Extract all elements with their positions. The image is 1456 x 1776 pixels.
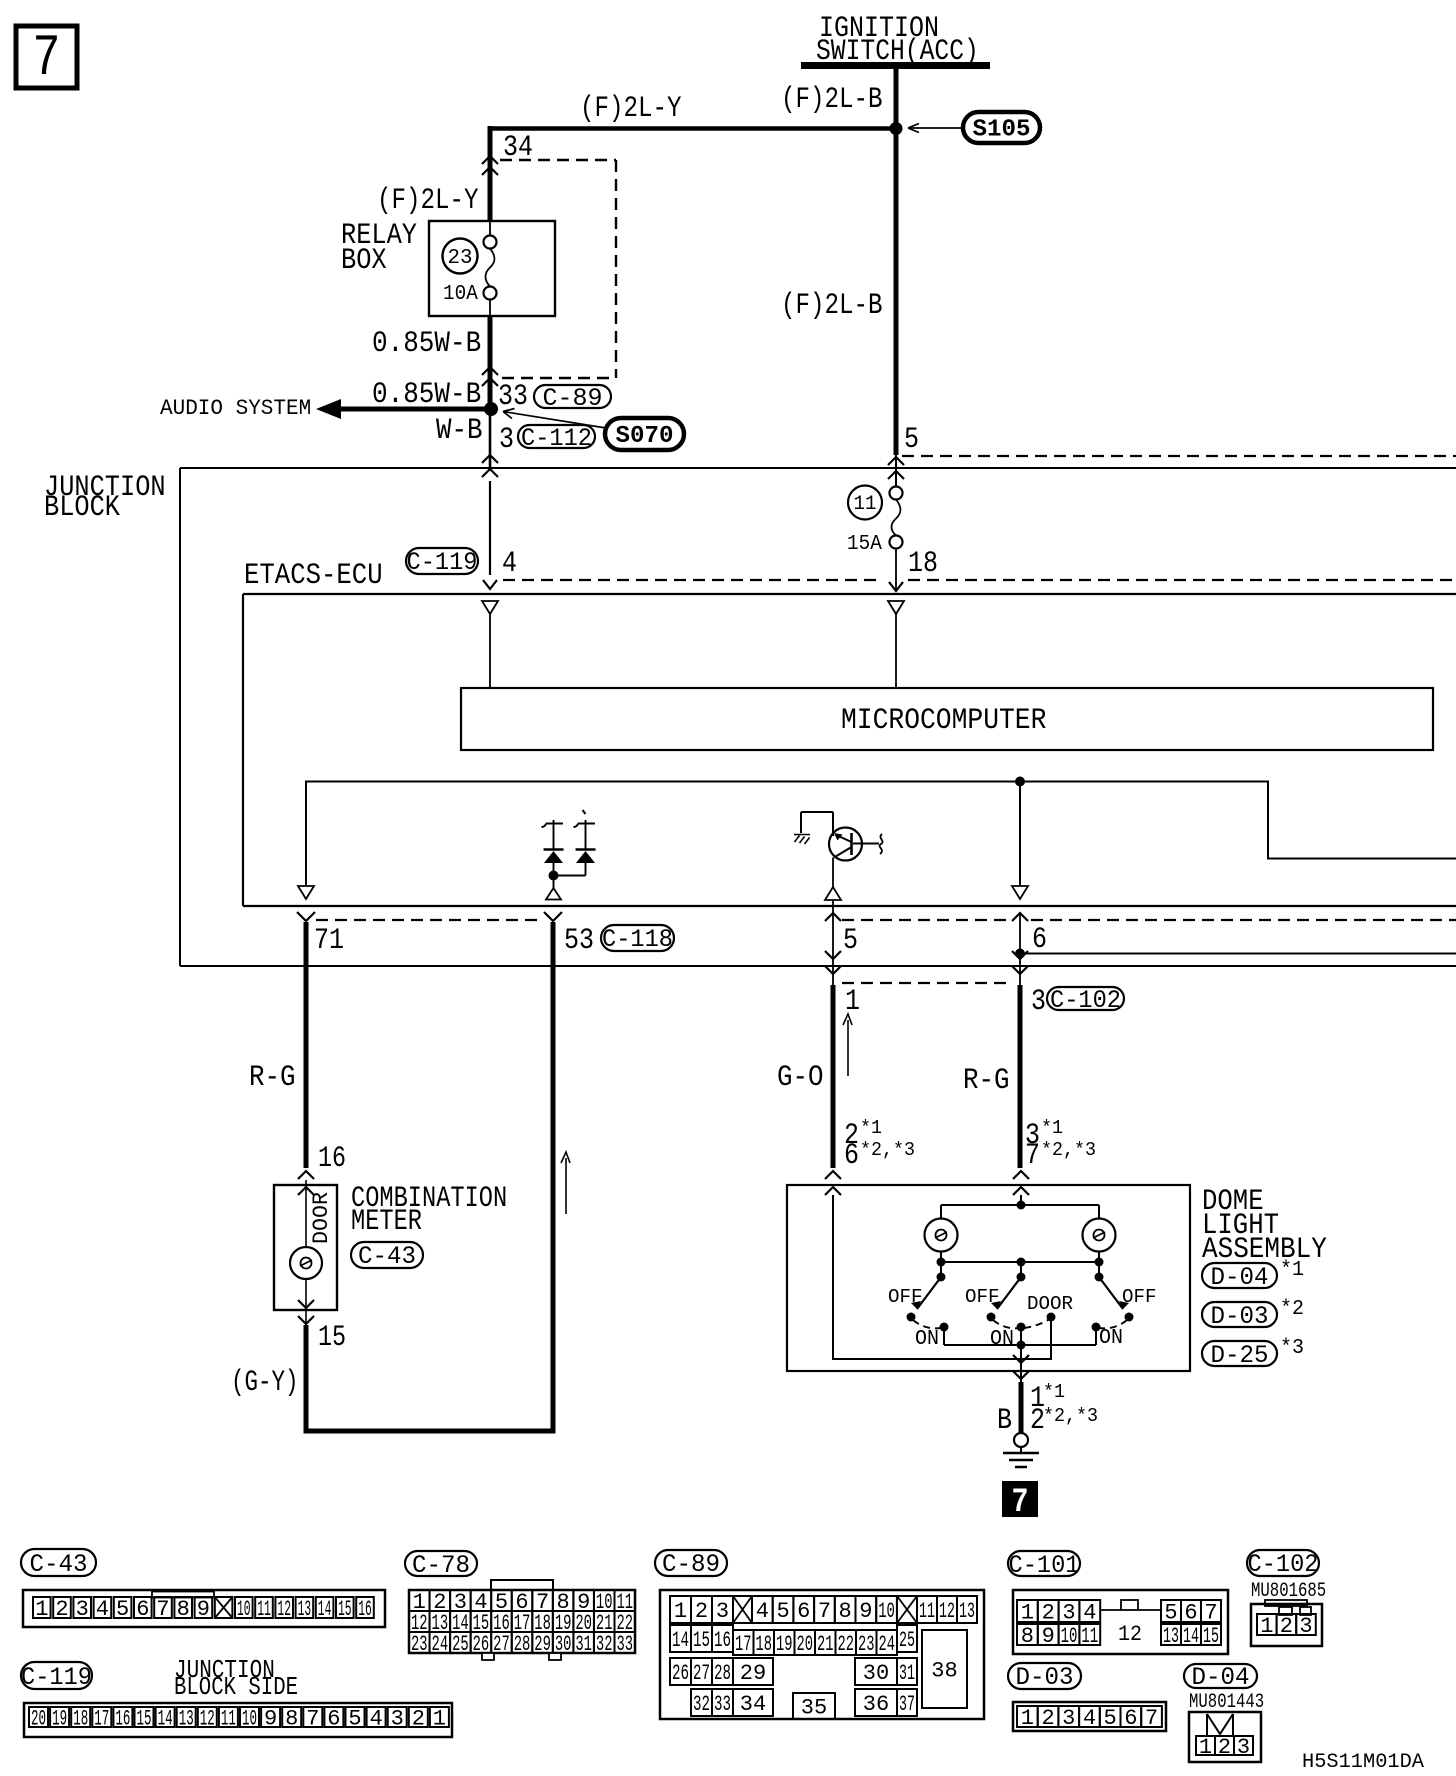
svg-text:12: 12 [939,1599,955,1624]
connector label C-102 bottom [1247,1550,1319,1576]
svg-text:11: 11 [221,1706,236,1731]
svg-text:S070: S070 [616,423,674,450]
wire R-G pin 3 to dome light [1018,985,1023,1168]
dome switch output rail [944,1344,1096,1346]
svg-text:OFF: OFF [965,1286,1000,1308]
wire G-O pin 1 to dome light [831,985,836,1168]
wire bus to pin 6 [1019,782,1021,887]
pin 5 lower wire and chevrons [832,913,834,985]
wire pin 3 to ETACS pin 4 [489,481,491,575]
pin 4 arrow into ECU [483,580,497,589]
svg-text:D-04: D-04 [1211,1263,1269,1292]
svg-text:BOX: BOX [341,244,387,278]
svg-text:2: 2 [1041,1706,1054,1731]
svg-text:7: 7 [1145,1706,1158,1731]
svg-text:R-G: R-G [963,1064,1010,1098]
relay box dashed outline [500,159,616,161]
svg-text:8: 8 [1021,1624,1034,1649]
pin 71 crossing chevron [297,912,315,921]
svg-text:C-78: C-78 [412,1551,470,1580]
svg-text:OFF: OFF [888,1286,923,1308]
svg-text:1: 1 [35,1597,48,1622]
wire triangle to microcomputer 2 [895,614,897,688]
svg-text:24: 24 [432,1632,449,1657]
connector D-03 pinout [1013,1702,1166,1731]
svg-text:(F)2L-B: (F)2L-B [781,83,883,117]
svg-text:*3: *3 [1280,1337,1304,1360]
connector label C-43 [351,1242,423,1268]
connector label C-89 [534,385,611,408]
ETACS-ECU box outline [243,593,1456,595]
relay/fuse inner box [429,221,555,316]
svg-text:1: 1 [1021,1706,1034,1731]
svg-text:4: 4 [370,1706,383,1731]
svg-text:1: 1 [674,1599,687,1624]
wire triangle to microcomputer [489,614,491,688]
svg-text:AUDIO SYSTEM: AUDIO SYSTEM [160,396,311,421]
meter loop left vertical (G-Y) [304,1325,309,1434]
ETACS lower connector dashed line C-118 [316,919,543,921]
connector label S070 [605,418,684,450]
ground symbol [1014,1433,1028,1447]
svg-text:BLOCK: BLOCK [44,491,120,525]
transistor emitter wire to pin 5 triangle [832,858,834,889]
microcomputer output bus wire [306,782,1456,887]
svg-text:26: 26 [672,1661,689,1686]
svg-text:11: 11 [854,493,877,516]
svg-text:(F)2L-Y: (F)2L-Y [377,184,479,218]
svg-text:35: 35 [801,1695,827,1720]
dome entry chevrons left [825,1171,841,1179]
svg-text:DOOR: DOOR [309,1192,334,1244]
svg-text:7: 7 [306,1706,319,1731]
svg-text:C-118: C-118 [602,925,673,954]
svg-text:11: 11 [257,1597,271,1622]
dome entry chevrons right [1013,1171,1029,1179]
dome output wire [1020,1345,1022,1382]
svg-text:13: 13 [1163,1624,1179,1649]
connector C-78 pinout [491,1580,553,1590]
svg-text:19: 19 [776,1632,793,1657]
svg-text:12: 12 [277,1597,291,1622]
svg-text:7: 7 [1012,1484,1029,1522]
pin 5 crossing chevrons [888,457,904,465]
svg-text:23: 23 [448,247,473,270]
svg-text:8: 8 [839,1599,852,1624]
svg-text:5: 5 [776,1599,789,1624]
svg-text:11: 11 [919,1599,935,1624]
svg-text:C-101: C-101 [1009,1551,1080,1580]
svg-text:53: 53 [564,924,594,958]
ECU input triangle pin4 [482,601,498,614]
combination meter box [274,1185,337,1310]
svg-text:71: 71 [314,924,344,958]
svg-text:4: 4 [96,1597,109,1622]
svg-text:16: 16 [714,1628,731,1653]
wire fuse 11 to ETACS pin 18 [895,548,897,589]
svg-text:OFF: OFF [1122,1286,1157,1308]
wire 53 to meter loop vertical [551,922,556,1431]
flow direction arrow at dome branch [847,1020,849,1076]
transistor Q1 [832,812,834,836]
svg-text:30: 30 [863,1661,889,1686]
svg-text:C-43: C-43 [358,1242,416,1271]
connector label D-03 [1008,1663,1081,1689]
wire R-G pin 71 to combination meter pin 16 [304,922,309,1168]
svg-text:(F)2L-B: (F)2L-B [781,289,883,323]
svg-text:10A: 10A [443,283,478,306]
svg-text:3: 3 [1062,1600,1075,1625]
svg-text:2: 2 [695,1599,708,1624]
svg-text:*2,*3: *2,*3 [1041,1139,1096,1161]
connector label C-112 [518,425,595,448]
dome lamp left [940,1205,942,1219]
svg-text:23: 23 [858,1632,875,1657]
meter entry chevrons [298,1171,314,1179]
svg-text:7: 7 [156,1597,169,1622]
fuse number circle 23 [443,239,478,274]
svg-text:3: 3 [1299,1614,1312,1639]
right switch [1098,1262,1100,1277]
svg-text:2: 2 [1280,1614,1293,1639]
svg-text:6: 6 [1184,1600,1197,1625]
svg-text:1: 1 [433,1706,446,1731]
left switch [940,1262,942,1277]
connector label D-04 [1202,1263,1277,1288]
svg-text:24: 24 [879,1632,896,1657]
svg-text:7: 7 [33,27,61,92]
svg-text:2: 2 [1218,1735,1231,1760]
svg-text:H5S11M01DA: H5S11M01DA [1302,1751,1424,1774]
svg-text:22: 22 [838,1632,855,1657]
connector label D-04 [1184,1664,1257,1688]
svg-text:3: 3 [1031,985,1046,1019]
svg-text:13: 13 [179,1706,194,1731]
svg-text:29: 29 [740,1661,766,1686]
svg-text:17: 17 [735,1632,752,1657]
svg-text:*2,*3: *2,*3 [1043,1405,1098,1427]
svg-text:10: 10 [1061,1624,1078,1649]
svg-text:9: 9 [1042,1624,1055,1649]
svg-text:16: 16 [318,1142,346,1176]
connector C-43 pinout [23,1590,385,1627]
connector label C-89 [655,1550,727,1576]
page number box 7 [16,26,77,88]
svg-text:C-119: C-119 [407,548,478,577]
connector label C-101 [1008,1551,1080,1576]
pin 6 lower wire and chevrons [1019,913,1021,985]
svg-text:*1: *1 [860,1117,882,1139]
junction block outline [180,467,1456,469]
svg-text:28: 28 [714,1661,731,1686]
flow direction arrow at meter branch [565,1158,567,1214]
svg-text:3: 3 [499,423,514,457]
svg-text:27: 27 [693,1661,710,1686]
dome light assembly box [787,1185,1190,1371]
svg-text:2: 2 [412,1706,425,1731]
svg-text:4: 4 [1083,1600,1096,1625]
svg-text:9: 9 [264,1706,277,1731]
svg-text:C-112: C-112 [521,424,592,453]
svg-text:*1: *1 [1041,1117,1063,1139]
connector label S105 [963,112,1040,143]
svg-text:21: 21 [817,1632,834,1657]
dome R-G internal feed [1020,1195,1022,1205]
svg-text:20: 20 [797,1632,814,1657]
wire pin5 to fuse 11 [895,455,897,487]
svg-text:R-G: R-G [249,1061,296,1095]
page reference 7 black box [1002,1481,1038,1517]
svg-text:C-89: C-89 [543,384,603,413]
svg-text:DOOR: DOOR [1027,1293,1073,1315]
junction dot to rear wiring [1015,949,1025,959]
svg-text:9: 9 [859,1599,872,1624]
diode D1 [553,820,555,849]
svg-text:14: 14 [672,1628,689,1653]
connector C-89 pinout [660,1590,984,1719]
svg-text:W-B: W-B [436,414,483,448]
svg-text:6: 6 [327,1706,340,1731]
svg-text:*2: *2 [1280,1298,1304,1321]
svg-text:15: 15 [693,1628,710,1653]
ignition switch supply bar [801,62,990,69]
pin 53 crossing chevron [544,912,562,921]
svg-text:25: 25 [899,1628,915,1653]
connector C-101 pinout [1013,1590,1228,1654]
diode pair upper contact hooks [542,824,564,828]
connector label C-78 [405,1551,477,1576]
svg-text:D-03: D-03 [1211,1302,1269,1331]
diode junction dot [554,875,586,877]
svg-text:C-89: C-89 [662,1550,720,1579]
connector C-89 pin 38 [922,1630,967,1708]
svg-text:16: 16 [115,1706,130,1731]
svg-text:(F)2L-Y: (F)2L-Y [580,92,682,126]
svg-text:2: 2 [1042,1600,1055,1625]
transistor collector stub with break squiggle [853,843,879,845]
junction block top connector dashed line [902,455,1456,457]
ECU output triangle pin 71 [298,886,314,899]
svg-text:6: 6 [844,1139,859,1173]
DOOR lamp [290,1247,322,1279]
dome lamp right [1098,1205,1100,1219]
svg-text:18: 18 [73,1706,88,1731]
svg-text:2: 2 [55,1597,68,1622]
svg-text:14: 14 [158,1706,173,1731]
diode output to pin 53 triangle [553,876,555,890]
connector label C-119 [21,1662,92,1689]
svg-text:9: 9 [197,1597,210,1622]
svg-text:15: 15 [338,1597,352,1622]
svg-text:C-102: C-102 [1248,1550,1319,1579]
svg-text:G-O: G-O [777,1061,824,1095]
connector C-102 dashed line [842,982,1013,984]
svg-text:33: 33 [616,1632,633,1657]
svg-text:36: 36 [863,1692,889,1717]
svg-text:B: B [997,1404,1012,1438]
dome G-O internal feed to DOOR contacts [833,1195,1051,1359]
fuse number circle 11 [848,486,882,520]
svg-text:D-04: D-04 [1192,1663,1250,1692]
svg-text:C-43: C-43 [30,1550,88,1579]
svg-text:33: 33 [714,1692,731,1717]
svg-text:11: 11 [1081,1624,1098,1649]
svg-text:10: 10 [237,1597,251,1622]
pin 18 arrow into ECU [889,582,903,591]
svg-text:15A: 15A [847,533,882,556]
svg-text:4: 4 [502,547,517,581]
svg-text:3: 3 [76,1597,89,1622]
connector label D-03 [1202,1302,1277,1327]
svg-text:13: 13 [298,1597,312,1622]
svg-text:MU801443: MU801443 [1189,1691,1264,1714]
svg-text:5: 5 [1104,1706,1117,1731]
meter exit chevrons [298,1300,314,1308]
svg-text:18: 18 [908,547,938,581]
svg-text:D-25: D-25 [1211,1341,1269,1370]
svg-text:37: 37 [899,1692,915,1717]
svg-text:5: 5 [843,924,858,958]
svg-text:5: 5 [348,1706,361,1731]
svg-text:7: 7 [1204,1600,1217,1625]
svg-text:BLOCK SIDE: BLOCK SIDE [174,1672,298,1702]
svg-text:19: 19 [52,1706,67,1731]
svg-text:4: 4 [756,1599,769,1624]
ETACS connector dashed line [503,579,881,581]
svg-text:15: 15 [1203,1624,1219,1649]
svg-text:1: 1 [1199,1735,1212,1760]
meter internal wire [305,1180,307,1247]
svg-text:25: 25 [452,1632,469,1657]
svg-text:C-102: C-102 [1050,986,1121,1015]
arrow from S070 to splice [503,412,606,429]
svg-text:1: 1 [1260,1614,1273,1639]
fuse 10A symbol [489,221,491,236]
ground symbol at transistor base [794,835,810,845]
svg-text:*1: *1 [1043,1381,1065,1403]
svg-text:15: 15 [318,1321,346,1355]
svg-text:16: 16 [358,1597,372,1622]
svg-text:28: 28 [514,1632,531,1657]
svg-text:18: 18 [756,1632,773,1657]
svg-text:MICROCOMPUTER: MICROCOMPUTER [841,704,1046,738]
svg-text:7: 7 [818,1599,831,1624]
connector 34 crossing chevrons [482,156,498,164]
svg-text:14: 14 [1183,1624,1199,1649]
svg-text:10: 10 [878,1599,895,1624]
svg-text:8: 8 [177,1597,190,1622]
connector label C-119 [406,548,478,574]
audio splice S070 junction dot [484,402,498,416]
dome exit chevrons [1013,1355,1029,1363]
svg-text:15: 15 [137,1706,152,1731]
svg-text:31: 31 [899,1661,915,1686]
wire ignition switch to splice S105 (F)2L-B [894,69,899,132]
svg-text:10: 10 [242,1706,257,1731]
svg-text:7: 7 [1025,1139,1040,1173]
svg-text:3: 3 [391,1706,404,1731]
svg-text:ON: ON [990,1328,1014,1351]
ECU output triangle pin 6 [1012,886,1028,899]
svg-text:1: 1 [1021,1600,1034,1625]
svg-text:17: 17 [94,1706,109,1731]
svg-text:38: 38 [931,1658,957,1683]
microcomputer box [461,688,1433,750]
svg-text:3: 3 [1237,1735,1250,1760]
dome lamp bus [941,1261,1099,1263]
connector 33 crossing chevrons [482,367,498,375]
svg-text:8: 8 [285,1706,298,1731]
svg-text:32: 32 [693,1692,710,1717]
svg-text:(G-Y): (G-Y) [231,1366,299,1400]
transistor Q1 base ground bracket [801,811,833,813]
diode D2 [585,820,587,849]
svg-text:D-03: D-03 [1016,1663,1074,1692]
splice S105 junction dot [890,122,903,135]
wire W-B to junction block pin 3 [489,409,492,468]
svg-text:6: 6 [136,1597,149,1622]
connector D-04 pinout [1189,1712,1261,1762]
svg-text:4: 4 [1083,1706,1096,1731]
svg-text:3: 3 [716,1599,729,1624]
connector C-102 pinout [1265,1600,1307,1606]
svg-text:S105: S105 [973,116,1031,143]
svg-text:13: 13 [959,1599,975,1624]
svg-text:*2,*3: *2,*3 [860,1139,915,1161]
wire (F)2L-B splice down to pin 5 [894,129,899,456]
svg-text:6: 6 [1032,923,1047,957]
svg-text:32: 32 [596,1632,613,1657]
fuse 15A symbol [890,487,903,500]
wire 0.85W-B relay box to audio splice [488,316,493,409]
svg-text:27: 27 [493,1632,510,1657]
svg-text:5: 5 [116,1597,129,1622]
svg-text:METER: METER [351,1205,422,1239]
wire B to ground [1019,1382,1024,1433]
middle switch [1020,1262,1022,1277]
svg-text:3: 3 [1062,1706,1075,1731]
meter loop bottom wire [304,1429,556,1434]
svg-text:5: 5 [904,423,919,457]
arrow from S105 to splice [908,127,962,129]
svg-text:23: 23 [411,1632,428,1657]
svg-text:*1: *1 [1280,1259,1304,1282]
ECU input triangle pin18 [888,601,904,614]
svg-text:34: 34 [740,1692,766,1717]
wire (F)2L-Y horizontal [490,126,896,131]
svg-text:12: 12 [200,1706,215,1731]
svg-text:14: 14 [318,1597,332,1622]
svg-text:12: 12 [1118,1622,1142,1647]
connector label D-25 [1202,1341,1277,1366]
svg-text:C-119: C-119 [21,1663,92,1692]
svg-text:31: 31 [575,1632,592,1657]
svg-text:5: 5 [1164,1600,1177,1625]
svg-text:6: 6 [1124,1706,1137,1731]
svg-text:ETACS-ECU: ETACS-ECU [244,559,383,593]
svg-text:6: 6 [797,1599,810,1624]
pin 3 crossing chevrons [482,455,498,463]
wire (F)2L-Y vertical to relay box pin 34 [488,126,493,221]
connector C-119 pinout [24,1703,452,1737]
svg-text:0.85W-B: 0.85W-B [372,327,481,361]
svg-text:20: 20 [31,1706,46,1731]
connector label C-43 [21,1549,96,1576]
bus junction dot [1015,777,1025,787]
svg-text:ON: ON [915,1328,939,1351]
svg-text:ON: ON [1099,1327,1123,1350]
